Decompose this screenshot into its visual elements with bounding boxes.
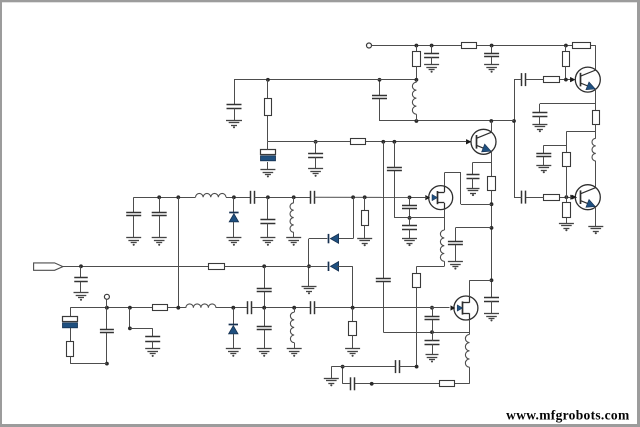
wire L8 ground lead (294, 343, 296, 349)
wire R18 ground lead (566, 218, 568, 224)
wire Q3 emitter (595, 207, 597, 226)
diode D1 (329, 234, 339, 243)
junction row A / L3 (292, 195, 296, 199)
transistor Q4 (425, 186, 452, 210)
resistor R15 (Q1 emitter) (593, 111, 600, 125)
capacitor C7 (251, 191, 255, 204)
wire C13 top lead (409, 218, 411, 226)
wire R13 top lead (565, 46, 567, 52)
wire Q5 gate lead (432, 307, 450, 309)
inductor L3 (290, 203, 294, 232)
capacitor C22 (532, 113, 547, 117)
capacitor C-emitter bypass (467, 175, 480, 179)
wire L7 to Q3 collector (595, 161, 597, 187)
ground C14 (308, 169, 323, 177)
wire C-emitter ground lead (472, 178, 474, 188)
wire PC1 ground lead (267, 162, 269, 170)
wire C4 top lead (152, 328, 154, 337)
wire C14 top lead (315, 142, 317, 154)
junction row A / Q4 gate (408, 196, 412, 200)
diode D2 (329, 262, 339, 271)
resistor R4 (362, 211, 369, 226)
junction input / C2 riser (262, 264, 266, 268)
wire C4 ground lead (152, 341, 154, 349)
wire R13 bottom lead (565, 66, 567, 80)
wire input segment 2 (225, 266, 328, 268)
capacitor C32 (311, 301, 315, 314)
wire L4 top lead (416, 80, 418, 82)
junction top rail / R13 (564, 44, 568, 48)
wire C-emitter branch (473, 162, 492, 164)
wire C-emitter lead (472, 162, 474, 175)
capacitor C17 (387, 168, 402, 171)
junction collector rail / Q2 (489, 119, 493, 123)
wire L3 ground lead (293, 232, 295, 238)
ground clamp (302, 287, 317, 295)
wire R2 top lead (352, 308, 354, 321)
wire D3 top lead (233, 197, 235, 212)
junction collector rail / L4 (415, 119, 419, 123)
resistor R8 (462, 43, 477, 49)
terminal J2 (top supply) (367, 43, 372, 48)
wire Q4 drain up (444, 173, 446, 186)
polarized capacitor PC1 (261, 150, 276, 161)
wire J3 lead (106, 299, 108, 307)
junction emitter bus / Q5 drain (490, 278, 494, 282)
wire D1 left lead (309, 238, 327, 240)
resistor R18 (563, 203, 571, 218)
wire R19 to return (70, 357, 72, 364)
wire bus corner to C19 (514, 79, 522, 81)
junction row B / C4 branch (128, 306, 132, 310)
wire D3 ground lead (233, 222, 235, 238)
junction row A / R4 (363, 195, 367, 199)
ground D3 (226, 238, 241, 246)
wire R11 to C-ground (491, 190, 493, 298)
wire C4 elbow (130, 328, 153, 330)
ground C6 (152, 238, 167, 246)
capacitor C20 (424, 54, 439, 58)
wire row B segment 2 (168, 307, 186, 309)
capacitor C9 (396, 360, 400, 373)
capacitor C12 (402, 206, 417, 209)
capacitor C6 (152, 213, 167, 216)
wire C10a top lead (432, 308, 434, 317)
inductor L2 (196, 193, 227, 197)
ground C22 (532, 125, 547, 133)
inductor L1 (186, 304, 216, 308)
ground C23 (536, 166, 551, 174)
wire Q4 source (444, 209, 446, 230)
wire Q5 drain elbow (470, 280, 492, 282)
wire R7 top lead (416, 46, 418, 52)
wire C25 ground lead (491, 301, 493, 313)
wire L6 corner to R10 (455, 383, 470, 385)
wire C17 top lead (394, 142, 396, 168)
capacitor C2 (257, 289, 272, 292)
junction Q1 base / R13 (564, 78, 568, 82)
capacitor C31 (257, 327, 272, 330)
wire C6 ground lead (159, 216, 161, 238)
junction row A / C8 (266, 195, 270, 199)
capacitor C8 (260, 220, 275, 224)
capacitor C-supply (227, 105, 242, 109)
resistor R16 (563, 153, 571, 167)
wire R5 to base line (267, 116, 269, 142)
wire C8 ground lead (267, 223, 269, 238)
wire rail corner to Q1 (595, 46, 597, 71)
wire C5 ground lead (133, 216, 135, 238)
capacitor C14 (308, 154, 323, 158)
wire C20 lead (431, 46, 433, 54)
ground C10b (426, 355, 439, 363)
wire bias vertical upper (566, 132, 568, 153)
wire C19 to R12 (526, 79, 544, 81)
wire Q4 drain elbow2 (460, 173, 462, 204)
inductor L6 (Q5 source) (465, 334, 469, 367)
wire row B segment 4 (252, 307, 311, 309)
wire Q4 gate lead (410, 197, 428, 199)
diode D4 (229, 325, 238, 334)
arrow into Q3 base (572, 195, 577, 200)
wire bus corner to C24 (514, 197, 522, 199)
wire row B segment 1 (70, 307, 152, 309)
ground C21 (484, 65, 499, 73)
ground R2 (345, 349, 360, 357)
wire PC2 corner (70, 308, 72, 316)
resistor R1 (209, 264, 225, 270)
inductor L8 (290, 312, 294, 342)
wire C15 bottom lead (379, 99, 381, 121)
wire input segment 1 (63, 266, 209, 268)
wire rail C21 lead (491, 46, 493, 54)
ground C4 (145, 349, 160, 357)
wire input drop to row B (352, 266, 354, 307)
wire L5 elbow (417, 266, 445, 268)
capacitor C18 (448, 242, 463, 245)
wire C6 top lead (159, 197, 161, 212)
junction emitter bus / C18 (490, 226, 494, 230)
resistor R9 (413, 274, 421, 288)
ground C18 (448, 262, 463, 270)
wire C11 corner lead (343, 383, 350, 385)
ground L3 (286, 238, 301, 246)
wire R16 to R18 (566, 166, 568, 202)
resistor R14 (573, 43, 591, 49)
wire C21 ground lead (491, 57, 493, 65)
resistor R11 (Q2 emitter) (488, 177, 496, 191)
inductor L4 (412, 82, 416, 114)
arrow into Q1 base (570, 77, 575, 82)
resistor R10 (440, 381, 455, 387)
ground C20 (424, 65, 439, 73)
wire D4 ground lead (233, 334, 235, 349)
junction C3 / return line (105, 362, 109, 366)
wire C2 riser top (264, 266, 266, 288)
capacitor C10b (425, 341, 440, 345)
wire D1 riser (353, 197, 355, 238)
wire C13 ground lead (409, 229, 411, 238)
wire C11 corner up (342, 367, 344, 384)
ground C13 (402, 239, 417, 247)
wire C31 top lead (264, 308, 266, 326)
wire L3 top lead (293, 197, 295, 203)
ground D4 (226, 349, 241, 357)
wire C3 bottom lead (106, 333, 108, 364)
wire Q1 emitter (595, 89, 597, 110)
wire mixer ground lead (331, 367, 333, 379)
wire C2 riser bottom (264, 292, 266, 308)
junction row B / L8 (292, 306, 296, 310)
wire C24 to R17 (526, 197, 544, 199)
ground mixer (324, 379, 339, 387)
capacitor C14b (311, 191, 315, 204)
wire C16 to Q5 source (383, 332, 469, 334)
capacitor C21 (484, 54, 499, 57)
wire R9 down to mixer node (416, 288, 418, 367)
wire PC2 to R19 (70, 328, 72, 341)
junction supply row / C15 (378, 78, 382, 82)
resistor R6 (Q2 base) (351, 139, 366, 145)
transistor Q5 (451, 296, 478, 320)
wire Q1 emitter branch (540, 103, 596, 105)
wire return line (70, 363, 107, 365)
input tag J1 (34, 263, 63, 270)
junction C4 elbow (128, 327, 132, 331)
diode D3 (229, 213, 238, 222)
ground C-emitter (467, 189, 480, 197)
wire C10b top lead (432, 332, 434, 341)
wire C3 top lead (106, 308, 108, 330)
wire bias cap branch (544, 145, 567, 147)
inductor L5 (Q4 source) (440, 230, 444, 261)
junction source line / C10 (430, 330, 434, 334)
junction row B / Q5 gate chain (430, 306, 434, 310)
ground PC1 (260, 170, 275, 178)
ground Q3 emitter (588, 227, 603, 235)
junction row A / D1 riser (351, 195, 355, 199)
junction row B / J3 (105, 306, 109, 310)
page border frame (0, 0, 640, 2)
resistor R7 (413, 52, 421, 67)
wire Q2 collector rail (380, 120, 515, 122)
wire C10a bottom lead (432, 320, 434, 332)
polarized capacitor PC2 (63, 317, 78, 328)
ground L8 (287, 349, 302, 357)
wire C31 ground lead (264, 330, 266, 349)
wire C4 riser (129, 308, 131, 329)
wire D4 top lead (233, 308, 235, 325)
wire mixer line left (331, 366, 395, 368)
wire C23 lead (543, 145, 545, 153)
wire C12-C13 to Q4 source (410, 217, 445, 219)
wire C17 bottom lead (394, 171, 396, 218)
junction Q2 base / C16 (381, 140, 385, 144)
wire C16 bottom lead (383, 282, 385, 332)
capacitor C3 (100, 330, 114, 333)
wire row B segment 5 (314, 307, 449, 309)
junction bottom line (370, 382, 374, 386)
wire Q4 drain elbow1 (444, 172, 461, 174)
wire R4 top lead (364, 197, 366, 211)
wire C14 ground lead (315, 157, 317, 169)
wire row A segment 3 (254, 197, 310, 199)
wire C18 ground lead (455, 245, 457, 262)
transistor Q1 (570, 67, 600, 92)
junction C12 / C13 (408, 216, 412, 220)
arrow into Q2 base (466, 139, 471, 144)
svg-text:www.mfgrobots.com: www.mfgrobots.com (506, 408, 630, 423)
capacitor C23 (536, 154, 551, 157)
capacitor C16 (376, 279, 391, 282)
junction row A / riser to row B (176, 195, 180, 199)
junction top rail / R7 (415, 44, 419, 48)
ground C-supply (226, 121, 242, 129)
ground C8 (260, 238, 275, 246)
junction input / clamp (307, 264, 311, 268)
wire Q5 drain up (469, 280, 471, 296)
wire C20 ground lead (431, 57, 433, 65)
wire Q3 base lead (560, 197, 577, 199)
wire C12 bottom lead (409, 209, 411, 218)
capacitor C10a (425, 317, 440, 320)
junction bus / Q2 collector line (512, 119, 516, 123)
resistor R2 (349, 322, 357, 336)
wire C-supply ground lead (234, 108, 236, 120)
junction Q2 base / C14 (314, 140, 318, 144)
junction emitter bus / Q4 drain (490, 202, 494, 206)
wire C18 top lead (455, 228, 457, 241)
wire row A left riser (133, 197, 135, 212)
junction mixer line / R9 (415, 365, 419, 369)
ground R18 (559, 224, 574, 232)
junction Q2 base / C17 (393, 140, 397, 144)
junction row A / C6 (157, 195, 161, 199)
wire base line left (268, 141, 350, 143)
wire C10b ground lead (432, 344, 434, 354)
ground C1 (74, 293, 89, 301)
wire L6 to corner (469, 367, 471, 384)
wire R7 bottom lead (416, 66, 418, 80)
capacitor C15 (372, 96, 387, 99)
wire C17 chain elbow (394, 217, 409, 219)
wire bias branch (566, 131, 595, 133)
wire row A segment 4 (314, 196, 409, 198)
resistor R12 (Q1 base) (544, 77, 560, 83)
wire R10 to C11 (354, 383, 439, 385)
junction Q3 base / bias (565, 195, 569, 199)
capacitor C1 (74, 278, 88, 282)
wire R15 to L7 (595, 124, 597, 138)
wire R9 top lead (416, 266, 418, 273)
wire C16 top lead (383, 142, 385, 278)
wire PC1 top lead (267, 142, 269, 150)
junction row A / D3 (232, 195, 236, 199)
wire supply row (234, 79, 416, 81)
capacitor C5 (126, 213, 141, 216)
wire C18 branch (455, 227, 491, 229)
resistor R19 (67, 342, 74, 357)
junction top rail / C21 (490, 44, 494, 48)
capacitor C25 (emitter bus) (484, 298, 499, 302)
ground C31 (257, 349, 272, 357)
capacitor C13 (402, 226, 417, 230)
wire Q4 drain to emitter bus (461, 204, 492, 206)
wire riser rowA-rowB (178, 197, 180, 307)
ground C5 (126, 238, 141, 246)
wire C22 ground lead (539, 116, 541, 124)
terminal J3 (104, 294, 109, 299)
wire row A segment 2 (226, 197, 250, 199)
wire Q5 source (469, 319, 471, 334)
wire C15 top lead (379, 80, 381, 96)
wire Q1 base lead (560, 79, 575, 81)
ground C25 (484, 314, 499, 322)
junction supply row / R5 (266, 78, 270, 82)
capacitor C11 (351, 377, 355, 390)
junction mixer line / C11 (341, 365, 345, 369)
wire C-supply corner (234, 80, 236, 105)
wire C12 top lead (409, 197, 411, 205)
junction row B / C31 (262, 306, 266, 310)
transistor Q2 (466, 129, 496, 154)
wire row B segment 3 (216, 307, 248, 309)
wire R2 ground lead (352, 335, 354, 349)
capacitor C24 (Q3 base) (522, 191, 526, 204)
wire clamp vertical (308, 239, 310, 286)
wire D1 right lead (337, 238, 353, 240)
ground R4 (357, 239, 372, 247)
wire C23 ground lead (543, 157, 545, 165)
wire L4 bottom lead (416, 114, 418, 121)
wire input segment 3 (337, 266, 353, 268)
transistor Q3 (570, 185, 600, 210)
wire Q2 emitter (491, 151, 493, 176)
junction supply row / R7-L4 (415, 78, 419, 82)
junction row B / riser (176, 306, 180, 310)
wire L8 top lead (294, 308, 296, 313)
wire Q2 collector (491, 121, 493, 132)
junction input / C1 (79, 264, 83, 268)
junction row B / D4 (231, 306, 235, 310)
capacitor C30 (248, 301, 252, 314)
resistor R5 (265, 99, 272, 116)
wire driver bus (514, 80, 516, 198)
junction row B / input drop (351, 306, 355, 310)
wire C1 ground lead (80, 282, 82, 293)
resistor R13 (563, 52, 570, 67)
resistor R3 (153, 305, 168, 311)
capacitor C19 (Q1 base) (522, 73, 526, 86)
wire top rail (372, 45, 596, 47)
wire R5 top lead (267, 80, 269, 99)
resistor R17 (Q3 base) (544, 195, 560, 201)
wire C22 lead (539, 104, 541, 113)
junction top rail / C20 (430, 44, 434, 48)
wire C8 top lead (267, 197, 269, 220)
wire R4 ground lead (364, 225, 366, 238)
wire Q2 base lead (366, 141, 472, 143)
wire L5 to elbow (444, 261, 446, 266)
wire mixer line right (399, 366, 416, 368)
wire row A segment 1 (134, 197, 196, 199)
inductor L7 (592, 138, 596, 161)
wire C1 top lead (80, 266, 82, 278)
capacitor C4 (145, 337, 160, 342)
